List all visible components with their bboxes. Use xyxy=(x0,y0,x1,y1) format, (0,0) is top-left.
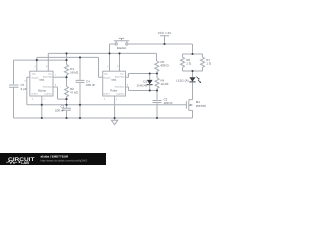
capacitor C5 xyxy=(9,85,19,118)
wire IC2 pin7 discharge xyxy=(126,74,158,78)
svg-text:1: 1 xyxy=(44,98,45,101)
wire rail L2 trigger net xyxy=(37,56,99,58)
svg-text:4: 4 xyxy=(34,65,35,68)
wire to LED anode xyxy=(192,71,194,77)
svg-text:Bouton: Bouton xyxy=(117,46,127,50)
resistor R1 56k xyxy=(65,53,69,77)
node VCC=3V xyxy=(160,36,169,44)
wire rail L3 from C5 xyxy=(14,59,67,61)
wire IC2 pin1 gnd xyxy=(114,96,116,118)
LED LED1 xyxy=(189,77,201,83)
wire IC1 pin6 threshold xyxy=(53,87,67,99)
svg-text:7: 7 xyxy=(127,74,128,77)
svg-text:1N4148: 1N4148 xyxy=(137,83,148,87)
svg-text:47 kΩ: 47 kΩ xyxy=(70,91,79,95)
svg-text:680 Ω: 680 Ω xyxy=(161,64,170,68)
resistor R2 47k xyxy=(65,86,69,104)
svg-text:LED1 (A): LED1 (A) xyxy=(176,79,188,83)
IC1 inner labels xyxy=(31,73,53,96)
wire IC1 pin7 to R1R2 junction xyxy=(53,76,67,78)
resistor R5 680 xyxy=(155,53,159,73)
svg-text:12 kΩ: 12 kΩ xyxy=(161,82,170,86)
pushbutton SW1 Bouton xyxy=(114,38,129,45)
svg-text:1 Ω: 1 Ω xyxy=(186,62,192,66)
ground xyxy=(111,118,117,125)
wire R5 R4 link xyxy=(156,74,158,79)
svg-text:IRF530: IRF530 xyxy=(196,104,206,108)
svg-text:100 nF: 100 nF xyxy=(86,83,96,87)
wire ground rail xyxy=(14,117,193,119)
junction dots xyxy=(36,43,194,119)
IC2 inner labels xyxy=(103,73,125,96)
wire rail L1 supply xyxy=(48,52,156,54)
svg-text:8: 8 xyxy=(46,65,47,68)
svg-text:100 nF: 100 nF xyxy=(164,101,174,105)
wire IC2 pin6 threshold xyxy=(126,87,158,91)
wire R6R7 bottom bar xyxy=(183,70,203,72)
resistor R4 12k xyxy=(155,78,159,91)
resistor R6 1ohm xyxy=(181,54,185,71)
wire IC2 pin8 xyxy=(119,53,121,71)
wire IC1 pin2 trigger xyxy=(27,77,30,105)
svg-text:8: 8 xyxy=(117,65,118,68)
capacitor C4 xyxy=(76,80,85,118)
pin numbers xyxy=(25,65,129,101)
svg-text:555: 555 xyxy=(39,78,44,82)
transistor M1 IRF530 xyxy=(186,100,192,118)
svg-text:Status: Status xyxy=(38,89,47,93)
svg-text:4: 4 xyxy=(107,65,108,68)
svg-text:2: 2 xyxy=(25,80,26,83)
wire VCC rail to button and R6R7 xyxy=(128,44,192,54)
svg-text:6: 6 xyxy=(127,84,128,87)
resistor R7 1ohm xyxy=(201,54,205,71)
wire IC1 pin4 xyxy=(36,57,38,71)
op-amp U2 555 timer box xyxy=(103,71,126,96)
svg-text:3: 3 xyxy=(104,98,105,101)
svg-text:LAB: LAB xyxy=(21,161,29,165)
op-amp U1 555 timer box xyxy=(30,71,53,96)
wire mid rail (gate drive) xyxy=(27,104,187,106)
svg-text:6: 6 xyxy=(55,84,56,87)
svg-text:Pulse: Pulse xyxy=(110,89,118,93)
svg-text:555: 555 xyxy=(111,78,116,82)
wire button left to IC2 pin4 xyxy=(110,44,115,71)
wire C4 top xyxy=(79,57,81,79)
svg-text:http:⁄⁄www.circuitlab.com⁄circ: http:⁄⁄www.circuitlab.com⁄circuit⁄hj24k3 xyxy=(41,159,88,163)
wire IC1 pin1 gnd xyxy=(41,96,43,118)
capacitor C2 xyxy=(153,101,162,119)
wire LED cathode to drain xyxy=(192,82,194,99)
svg-text:100 nF: 100 nF xyxy=(55,108,65,112)
wire R4 to C2 xyxy=(156,91,158,100)
diode D1 1N4148 xyxy=(147,74,153,91)
wire IC2 pin2 trigger xyxy=(99,57,103,77)
svg-text:2 µF: 2 µF xyxy=(21,87,27,91)
capacitor C1 xyxy=(62,105,71,118)
value labels xyxy=(21,31,212,113)
wire C5 top xyxy=(13,60,15,84)
svg-text:7: 7 xyxy=(55,74,56,77)
watermark bar xyxy=(0,153,106,165)
svg-text:3: 3 xyxy=(32,98,33,101)
svg-text:1 Ω: 1 Ω xyxy=(206,62,212,66)
wire R6R7 top bar xyxy=(183,53,203,55)
svg-text:56 kΩ: 56 kΩ xyxy=(70,71,79,75)
svg-text:1: 1 xyxy=(116,98,117,101)
wire IC1 pin8 xyxy=(47,53,49,71)
wire R1 R2 link xyxy=(66,77,68,86)
svg-text:VCC = 3V: VCC = 3V xyxy=(158,31,171,35)
